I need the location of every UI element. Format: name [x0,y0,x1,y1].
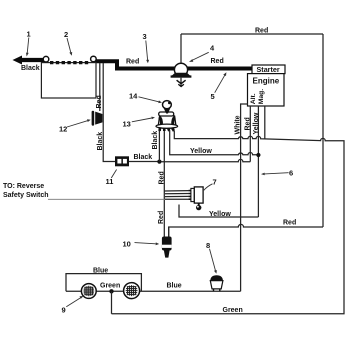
wire: engine mag stub [264,106,266,139]
ground symbol under solenoid [177,78,186,87]
wire: key switch pin3 yellow to junction [170,131,259,155]
wire: engine white lead [241,104,248,291]
wire: black junction to engine red lead (hop over white) [159,159,250,161]
svg-text:Starter: Starter [257,65,280,74]
solenoid U1 (item 4) vertical red wire up [180,34,182,63]
svg-text:14: 14 [129,92,138,101]
pointer line 3 [146,41,148,61]
wire: green drop from lamp junction [111,291,113,314]
key head (item 14) [163,101,172,109]
svg-text:Alt.: Alt. [250,93,257,104]
pointer line 11 [111,170,116,179]
svg-text:3: 3 [143,32,147,41]
pointer line 14 [139,97,159,102]
wire: battery ground cable (left thick black) [21,58,45,62]
battery cell dashes [50,61,90,64]
svg-text:5: 5 [211,92,215,101]
wire: right Red vertical down [322,34,324,227]
pointer line 8 [210,249,216,271]
wire: lamp row horizontal [66,290,241,292]
battery B1 (item 2) [41,63,96,98]
key switch pins [158,128,161,131]
wire: engine red lead down [249,106,251,162]
svg-text:Red: Red [96,95,103,108]
pointer line 2 [67,38,71,53]
svg-text:Red: Red [245,117,252,130]
svg-text:6: 6 [289,168,293,177]
key switch body (item 13) [156,101,178,131]
starter box [252,65,285,74]
wire: TO reverse safety switch line [48,198,165,200]
svg-text:Yellow: Yellow [209,211,231,218]
pointer line 1 [27,38,29,54]
svg-text:Red: Red [255,28,268,35]
light switch (item 8) [210,275,223,291]
svg-text:11: 11 [106,177,114,186]
wire: key switch pin1 down to black junction [158,131,160,162]
junction dot lamps [109,289,113,293]
pointer line 9 [66,298,81,307]
svg-text:White: White [235,115,242,134]
solenoid circle (item 4) [174,63,187,76]
svg-text:Red: Red [126,59,139,66]
toggle switch (item 7) [189,187,204,210]
key shank [164,108,170,113]
svg-text:10: 10 [123,240,131,249]
svg-text:Yellow: Yellow [190,148,212,155]
wires: fan into switch 7 [164,190,189,192]
svg-text:Red: Red [158,171,165,184]
svg-text:7: 7 [213,178,217,187]
wire: lamp circuit blue loop [66,274,141,292]
fuse holder (item 10) [162,227,172,258]
svg-text:TO: Reverse: TO: Reverse [3,183,44,190]
pointer line 6 [265,173,289,174]
pointer line 10 [135,243,156,244]
wire: battery positive thick cable to starter [95,61,252,68]
svg-text:13: 13 [123,120,131,129]
connector (item 11) [115,156,129,166]
wire: key switch pin2 red down to fuse [163,131,165,237]
svg-text:Black: Black [21,65,40,72]
svg-text:Red: Red [283,220,296,227]
headlamp left (item 9) [81,284,96,299]
svg-text:Green: Green [223,307,243,314]
battery terminal left [43,56,49,62]
pointer line 13 [132,118,152,122]
svg-text:Blue: Blue [167,282,182,289]
svg-text:1: 1 [27,30,31,39]
svg-text:9: 9 [62,306,66,315]
svg-text:12: 12 [59,125,67,134]
svg-text:4: 4 [210,44,215,53]
svg-text:Black: Black [152,131,159,150]
key switch base flange [156,124,178,128]
svg-text:Blue: Blue [93,267,108,274]
ground cable arrowhead [13,56,23,65]
circuit breaker (item 12) [92,111,103,126]
svg-text:2: 2 [64,30,68,39]
wire: key switch pin4 to right edge (hops) [112,131,345,314]
svg-text:Black: Black [134,154,153,161]
pointer line 5 [215,75,225,93]
wire: engine yellow lead down [257,106,259,217]
pointer line 4 [192,52,209,60]
pointer line 12 [67,121,88,127]
svg-text:Red: Red [211,58,224,65]
key switch bezel [159,112,174,116]
svg-text:Yellow: Yellow [253,112,260,134]
wire: black battery negative loop: down the left, right to junction [99,63,101,111]
battery terminal right [91,56,97,62]
engine box [248,74,285,106]
svg-text:Black: Black [97,132,104,151]
svg-text:Engine: Engine [253,77,280,86]
wire: top Red from solenoid to right side [181,33,323,35]
wire: yellow horizontal to switch 7 loop [179,205,258,218]
svg-text:8: 8 [206,241,210,250]
pointer line 7 [204,184,213,191]
junction dot yellow [256,153,260,157]
svg-text:Safety Switch: Safety Switch [3,192,49,199]
junction dot black [157,160,161,164]
svg-text:Mag.: Mag. [258,89,265,105]
svg-text:Green: Green [100,283,120,290]
headlamp right (item 9) [124,283,140,299]
wire: Red horizontal to fuse [169,224,323,236]
svg-text:Red: Red [158,211,165,224]
